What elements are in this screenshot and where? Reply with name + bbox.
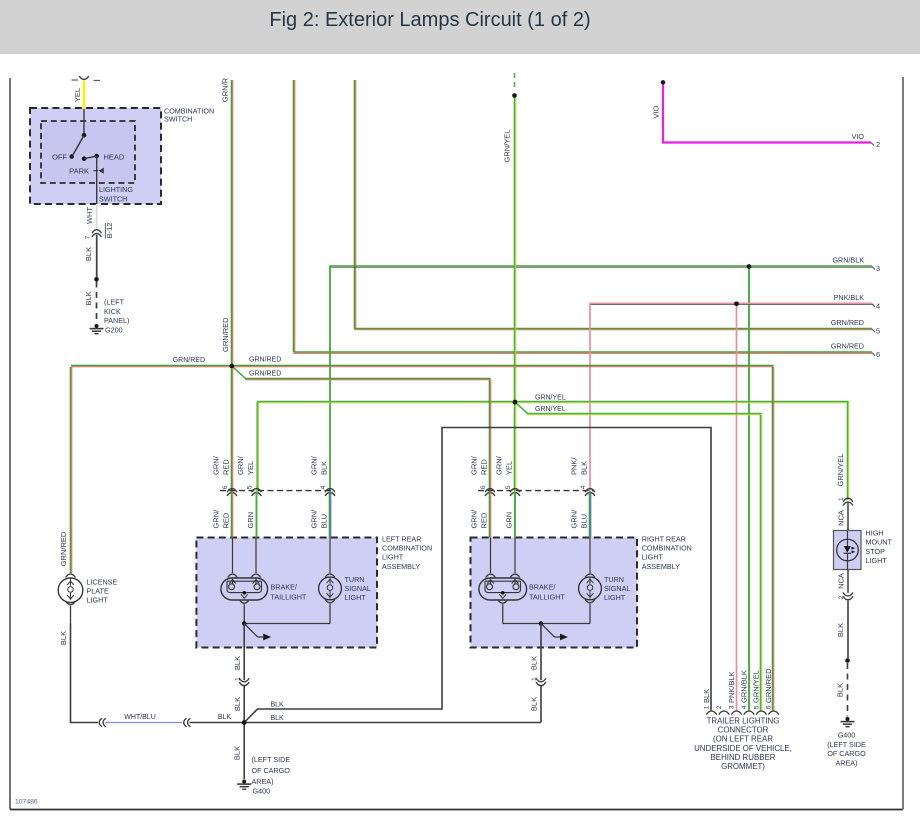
wire GRN/RED feed A top <box>231 80 232 366</box>
wire WHT below lighting switch <box>96 204 98 229</box>
wire GRN/BLK horizontal from terminal 3 <box>329 266 872 267</box>
svg-text:OFF: OFF <box>52 152 67 161</box>
wire GRN/YEL down to left assembly pin 5 <box>257 402 258 492</box>
svg-text:G400: G400 <box>253 787 271 796</box>
svg-text:5: 5 <box>247 485 254 489</box>
wire NCA lower <box>847 570 849 594</box>
svg-text:GROMMET): GROMMET) <box>721 762 765 771</box>
svg-text:PNK/BLK: PNK/BLK <box>834 293 865 302</box>
svg-text:GRN/R: GRN/R <box>221 77 230 102</box>
wire BLK to kick panel <box>96 235 98 277</box>
svg-text:3: 3 <box>876 264 880 273</box>
wire label GRN/BLK above connector <box>309 455 328 475</box>
wire label GRN/BLU below connector <box>569 509 588 529</box>
junction GRN/RED <box>230 364 235 369</box>
svg-text:1: 1 <box>531 677 538 681</box>
svg-text:GRN/: GRN/ <box>211 509 220 529</box>
svg-text:6: 6 <box>480 485 487 489</box>
pin 4 connector <box>325 489 335 496</box>
svg-text:KICK: KICK <box>104 307 121 316</box>
svg-text:VIO: VIO <box>652 105 661 118</box>
svg-text:GRN/RED: GRN/RED <box>249 357 281 364</box>
svg-text:BRAKE/: BRAKE/ <box>271 583 297 592</box>
license plate light <box>58 574 83 624</box>
label BRAKE/TAILLIGHT <box>271 583 307 602</box>
lighting switch inner box <box>41 121 135 183</box>
svg-text:5: 5 <box>876 327 880 336</box>
assembly connector dashed line <box>220 490 334 492</box>
brake/taillight bulb <box>479 574 527 623</box>
HEAD contact <box>94 154 99 159</box>
svg-text:BLU: BLU <box>319 514 328 529</box>
pin 5 connector <box>252 489 262 496</box>
junction GRN/YEL <box>513 400 518 405</box>
terminal 6 <box>872 350 880 359</box>
dashed stub GRN/YEL top <box>514 73 516 91</box>
svg-text:GRN/RED: GRN/RED <box>221 317 230 352</box>
svg-text:G400: G400 <box>838 731 856 740</box>
connector high mount pin 2 <box>843 592 853 599</box>
svg-text:BEHIND RUBBER: BEHIND RUBBER <box>711 753 776 762</box>
label LICENSE PLATE LIGHT <box>87 578 118 605</box>
wire label GRN/RED below connector <box>211 509 230 529</box>
label HIGH MOUNT STOP LIGHT <box>866 529 893 566</box>
svg-text:OF CARGO: OF CARGO <box>252 766 291 775</box>
svg-text:RIGHT REAR: RIGHT REAR <box>642 534 686 543</box>
wire GRN/YEL branch diagonal <box>516 403 762 415</box>
wire label GRNNone below connector <box>504 512 513 529</box>
svg-text:(LEFT SIDE: (LEFT SIDE <box>827 740 866 749</box>
svg-text:COMBINATION: COMBINATION <box>382 543 432 552</box>
svg-text:6: 6 <box>222 485 229 489</box>
wire GRN/RED junction to trailer pin 6 <box>232 365 774 366</box>
junction PNK/BLK to trailer <box>734 302 739 307</box>
svg-text:6: 6 <box>876 350 880 359</box>
svg-text:WHT: WHT <box>85 207 94 224</box>
svg-text:UNDERSIDE OF VEHICLE,: UNDERSIDE OF VEHICLE, <box>694 744 792 753</box>
label G400 right <box>827 731 866 768</box>
wire GRN/BLK down to trailer pin 4 <box>748 268 750 710</box>
wire BLK to splice <box>540 686 542 723</box>
svg-text:TURN: TURN <box>345 575 365 584</box>
wire BLK below license light <box>71 624 99 723</box>
svg-text:LEFT REAR: LEFT REAR <box>382 534 421 543</box>
wire BLK high mount <box>847 601 849 659</box>
svg-text:WHT/BLU: WHT/BLU <box>124 714 156 721</box>
svg-text:LIGHT: LIGHT <box>642 553 664 562</box>
svg-text:7: 7 <box>84 236 91 240</box>
wire label GRN/RED below connector <box>469 509 488 529</box>
svg-text:SWITCH: SWITCH <box>99 194 127 203</box>
internal wires right assembly <box>491 538 591 574</box>
junction dots overlay <box>230 264 752 725</box>
wire GRN/BLU into right assembly <box>589 492 590 538</box>
wire GRN/RED down to trailer pin 6 <box>772 367 773 710</box>
svg-text:6: 6 <box>766 705 773 709</box>
svg-text:LIGHT: LIGHT <box>604 593 626 602</box>
label TURN SIGNAL LIGHT left <box>345 575 371 602</box>
svg-text:2: 2 <box>838 596 845 600</box>
svg-text:BLK: BLK <box>702 689 711 703</box>
svg-text:GRN/: GRN/ <box>469 455 478 475</box>
high mount LED lamp <box>837 531 859 570</box>
wire GRN/RED feed C top to terminal 5 <box>354 80 355 329</box>
right rear combination light assembly box <box>471 538 638 648</box>
svg-text:LICENSE: LICENSE <box>87 578 118 587</box>
svg-text:1: 1 <box>838 497 845 501</box>
wire GRN into left assembly <box>256 492 258 538</box>
case ground arrow <box>244 624 271 641</box>
assembly ground bus <box>244 623 330 625</box>
assembly name label <box>642 534 692 570</box>
svg-text:STOP: STOP <box>866 547 886 556</box>
svg-text:BLK: BLK <box>84 291 93 305</box>
svg-text:GRN/YEL: GRN/YEL <box>535 394 566 401</box>
assembly name label <box>382 534 432 570</box>
inline connector left <box>99 718 106 726</box>
switch lever to OFF <box>73 135 84 154</box>
pin 4 connector <box>585 489 595 496</box>
svg-text:GRN/YEL: GRN/YEL <box>836 454 845 487</box>
trailer lighting connector <box>706 711 779 715</box>
svg-text:YEL: YEL <box>246 461 255 475</box>
svg-text:GRN/: GRN/ <box>569 509 578 529</box>
wire GRN/RED branch diagonal to right assembly <box>233 367 491 380</box>
svg-text:YEL: YEL <box>73 88 82 102</box>
svg-text:GRN/YEL: GRN/YEL <box>752 670 761 703</box>
trailer connector caption <box>694 717 792 771</box>
wire GRN/RED feed B horizontal <box>293 352 872 353</box>
svg-text:GRN/BLK: GRN/BLK <box>739 670 748 703</box>
svg-text:RED: RED <box>479 459 488 475</box>
svg-text:PARK: PARK <box>69 166 89 175</box>
wire BLK to splice <box>243 686 245 723</box>
svg-text:VIO: VIO <box>852 132 865 141</box>
svg-text:GRN/: GRN/ <box>236 455 245 475</box>
svg-text:4: 4 <box>741 705 748 709</box>
svg-text:1: 1 <box>234 677 241 681</box>
svg-text:BLK: BLK <box>218 714 232 721</box>
svg-text:GRN/: GRN/ <box>309 509 318 529</box>
pin 5 connector <box>510 489 520 496</box>
wire label GRN/RED above connector <box>211 455 230 475</box>
wire VIO <box>663 85 871 143</box>
svg-text:BLK: BLK <box>836 623 845 637</box>
wire BLK below assembly <box>540 624 542 681</box>
wire label GRN/YEL above connector <box>236 455 255 475</box>
svg-text:BLK: BLK <box>530 656 539 670</box>
terminal 4 <box>872 301 880 310</box>
wire label PNK/BLK above connector <box>569 457 588 475</box>
svg-text:PLATE: PLATE <box>87 587 109 596</box>
svg-text:MOUNT: MOUNT <box>866 538 893 547</box>
svg-text:TAILLIGHT: TAILLIGHT <box>529 593 565 602</box>
svg-text:4: 4 <box>876 301 880 310</box>
wire GRN/RED down to license plate light <box>70 367 71 573</box>
svg-text:RED: RED <box>221 459 230 475</box>
svg-text:BLK: BLK <box>836 683 845 697</box>
trailer pin numbers <box>704 705 773 709</box>
svg-text:BRAKE/: BRAKE/ <box>529 583 555 592</box>
combination switch box <box>30 108 161 204</box>
svg-text:BLK: BLK <box>271 715 285 722</box>
PARK contact <box>82 156 87 161</box>
connector stub above wire YEL <box>72 76 101 81</box>
wire PNK/BLK horizontal from terminal 4 <box>589 303 872 304</box>
right turn signal light <box>579 574 602 624</box>
svg-text:ASSEMBLY: ASSEMBLY <box>642 562 680 571</box>
svg-text:GRN/YEL: GRN/YEL <box>503 130 512 163</box>
svg-text:4: 4 <box>320 485 327 489</box>
svg-text:HEAD: HEAD <box>104 152 125 161</box>
wire BLK splice up-over to trailer pin 1 <box>244 428 711 723</box>
label G400 cargo area <box>252 755 291 796</box>
svg-text:GRN/RED: GRN/RED <box>831 342 864 351</box>
svg-text:SIGNAL: SIGNAL <box>345 584 371 593</box>
splice dot <box>94 277 99 282</box>
svg-text:107486: 107486 <box>15 799 38 806</box>
svg-text:AREA): AREA) <box>836 758 858 767</box>
svg-text:5: 5 <box>753 705 760 709</box>
dashed wire BLK <box>96 282 98 323</box>
wire BLK splice to right assembly <box>244 722 541 724</box>
wire GRN/BLK down to left assembly pin 4 <box>329 267 331 492</box>
svg-text:GRN/RED: GRN/RED <box>249 371 281 378</box>
svg-text:BLK: BLK <box>579 461 588 475</box>
svg-text:BLU: BLU <box>579 514 588 529</box>
internal wires left assembly <box>233 538 331 574</box>
wire BLK splice to ground <box>243 723 245 780</box>
wire YEL from top <box>83 81 86 109</box>
pin 6 connector <box>227 489 237 496</box>
svg-text:NCA: NCA <box>837 510 846 526</box>
wire GRN/RED feed C horizontal <box>354 328 872 329</box>
svg-text:PANEL): PANEL) <box>104 316 129 325</box>
wire PNK/BLK down to trailer pin 3 <box>736 306 738 711</box>
assembly ground junction <box>539 621 544 626</box>
terminal 3 <box>872 264 880 273</box>
svg-text:GRN/: GRN/ <box>211 455 220 475</box>
pin 6 connector <box>485 489 495 496</box>
svg-text:GRN/BLK: GRN/BLK <box>832 256 864 265</box>
svg-text:OF CARGO: OF CARGO <box>827 749 866 758</box>
ground G200 <box>95 324 99 328</box>
wiper contact symbol <box>93 156 103 204</box>
svg-text:(ON LEFT REAR: (ON LEFT REAR <box>713 735 773 744</box>
svg-text:(LEFT: (LEFT <box>104 298 125 307</box>
left turn signal light <box>319 574 342 624</box>
assembly ground bus <box>503 623 590 625</box>
lighting switch label <box>99 185 133 203</box>
label B-12 <box>105 223 114 239</box>
svg-text:BLK: BLK <box>59 631 68 645</box>
svg-text:2: 2 <box>876 140 880 149</box>
wire GRN/RED down to right assembly pin 6 <box>489 380 490 492</box>
wire NCA upper <box>847 502 849 531</box>
OFF contact <box>69 154 74 159</box>
brake/taillight bulb <box>221 574 268 623</box>
svg-text:CONNECTOR: CONNECTOR <box>718 726 769 735</box>
wire GRN into right assembly <box>514 492 516 538</box>
svg-text:GRN/RED: GRN/RED <box>173 357 205 364</box>
wire label GRNNone below connector <box>246 512 255 529</box>
location label left kick panel <box>104 298 129 326</box>
splice S (cargo area) <box>242 720 247 725</box>
assembly connector dashed line <box>478 490 594 492</box>
svg-text:BLK: BLK <box>271 702 285 709</box>
svg-text:GRN/RED: GRN/RED <box>764 668 773 703</box>
wire GRN/RED down to left assembly pin 6 <box>231 366 232 492</box>
svg-text:TAILLIGHT: TAILLIGHT <box>271 593 307 602</box>
svg-text:LIGHT: LIGHT <box>866 556 888 565</box>
left rear combination light assembly box <box>196 538 377 648</box>
wire connector high mount pin 1 <box>843 498 853 505</box>
ground G400 right <box>846 717 850 721</box>
svg-text:3: 3 <box>729 705 736 709</box>
junction GRN/BLK to trailer <box>747 264 752 269</box>
wire label GRN/YEL above connector <box>494 455 513 475</box>
ground G400 left <box>242 780 246 784</box>
wire GRN/RED feed B top to terminal 6 <box>293 80 294 352</box>
header band <box>0 0 920 54</box>
svg-text:GRN/: GRN/ <box>469 509 478 529</box>
high mount stop light box <box>834 531 862 570</box>
wire GRN/RED into right assembly <box>489 492 490 538</box>
case ground arrow <box>541 624 568 641</box>
svg-text:RED: RED <box>221 512 230 528</box>
svg-text:Fig 2: Exterior Lamps Circuit: Fig 2: Exterior Lamps Circuit (1 of 2) <box>269 9 590 31</box>
svg-text:RED: RED <box>479 512 488 528</box>
svg-text:YEL: YEL <box>504 461 513 475</box>
svg-text:B-12: B-12 <box>105 223 114 239</box>
svg-text:BLK: BLK <box>233 697 242 711</box>
svg-text:BLK: BLK <box>530 697 539 711</box>
svg-text:LIGHT: LIGHT <box>345 593 367 602</box>
wire GRN/YEL main vertical <box>514 98 515 492</box>
wire PNK/BLK down to right assembly pin 4 <box>589 304 591 492</box>
wire GRN/YEL horizontal to high mount <box>257 401 849 402</box>
svg-text:LIGHTING: LIGHTING <box>99 185 133 194</box>
svg-text:ASSEMBLY: ASSEMBLY <box>382 562 420 571</box>
lever PARK to HEAD <box>84 156 97 159</box>
svg-text:HIGH: HIGH <box>866 529 884 538</box>
inline connector right <box>184 718 191 726</box>
svg-text:BLK: BLK <box>233 746 242 760</box>
node dot GRN/YEL <box>512 93 517 98</box>
svg-text:GRN/RED: GRN/RED <box>831 318 864 327</box>
svg-text:5: 5 <box>505 485 512 489</box>
svg-text:GRN/YEL: GRN/YEL <box>535 406 566 413</box>
svg-text:BLK: BLK <box>84 247 93 261</box>
svg-text:PNK/BLK: PNK/BLK <box>727 671 736 703</box>
svg-text:PNK/: PNK/ <box>569 457 578 475</box>
svg-text:TURN: TURN <box>604 575 624 584</box>
svg-text:NCA: NCA <box>837 573 846 589</box>
svg-text:LIGHT: LIGHT <box>382 553 404 562</box>
wire GRN/YEL down to trailer pin 5 <box>760 415 761 710</box>
dashed wire BLK to G400 <box>847 663 849 717</box>
svg-text:SIGNAL: SIGNAL <box>604 584 630 593</box>
wire GRN/BLU into left assembly <box>329 492 330 538</box>
svg-text:BLK: BLK <box>233 656 242 670</box>
combination switch label <box>164 107 214 124</box>
svg-text:LIGHT: LIGHT <box>87 596 109 605</box>
svg-text:GRN/: GRN/ <box>494 455 503 475</box>
label BRAKE/TAILLIGHT <box>529 583 565 602</box>
svg-text:G200: G200 <box>105 325 123 334</box>
splice dot <box>845 658 850 663</box>
wire WHT/BLU <box>105 722 183 724</box>
svg-text:1: 1 <box>704 705 711 709</box>
svg-text:AREA): AREA) <box>252 777 274 786</box>
wire GRN/YEL down to high mount pin 1 <box>847 402 848 500</box>
wire BLK to splice <box>190 722 245 724</box>
svg-text:2: 2 <box>716 705 723 709</box>
svg-text:SWITCH: SWITCH <box>164 115 192 124</box>
wire GRN/RED into left assembly <box>231 492 232 538</box>
terminal 5 <box>872 327 880 336</box>
svg-text:GRN/RED: GRN/RED <box>59 531 68 566</box>
terminal 2 <box>871 140 880 149</box>
connector B-12 <box>92 230 101 237</box>
switch common node <box>82 133 87 138</box>
assembly ground junction <box>242 621 247 626</box>
svg-text:GRN: GRN <box>246 512 255 529</box>
svg-text:4: 4 <box>580 485 587 489</box>
svg-text:GRN: GRN <box>504 512 513 529</box>
svg-text:BLK: BLK <box>319 461 328 475</box>
svg-text:GRN/: GRN/ <box>309 455 318 475</box>
wire GRN/RED junction horizontal left <box>71 365 232 366</box>
wire BLK below assembly <box>243 624 245 681</box>
inline connector pin 1 <box>239 678 249 685</box>
svg-text:COMBINATION: COMBINATION <box>642 543 692 552</box>
svg-text:TRAILER LIGHTING: TRAILER LIGHTING <box>707 717 780 726</box>
node dot VIO top <box>661 80 666 85</box>
label TURN SIGNAL LIGHT right <box>604 575 630 602</box>
svg-text:(LEFT SIDE: (LEFT SIDE <box>252 755 291 764</box>
wire into lighting switch <box>83 109 85 135</box>
wire label GRN/BLU below connector <box>309 509 328 529</box>
inline connector pin 1 <box>536 678 546 685</box>
trailer wire labels <box>702 668 773 703</box>
wire label GRN/RED above connector <box>469 455 488 475</box>
